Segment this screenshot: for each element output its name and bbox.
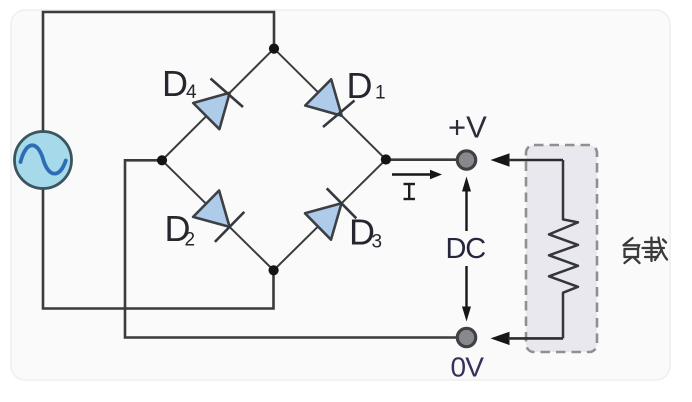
arrow into +V from load — [491, 153, 564, 166]
svg-text:1: 1 — [375, 83, 386, 104]
wire: AC bottom to bottom node — [43, 187, 274, 309]
wire: left node to 0V terminal — [125, 160, 456, 337]
svg-text:D: D — [347, 65, 373, 106]
load box (dashed) — [526, 145, 597, 352]
node left — [157, 155, 167, 165]
terminal +V — [457, 151, 475, 169]
terminal 0V — [457, 328, 475, 346]
svg-text:3: 3 — [372, 232, 383, 253]
svg-text:D: D — [162, 63, 188, 104]
diode D1 (top node to right node) — [305, 79, 354, 127]
diode D2 (left node to bottom node) — [193, 191, 244, 242]
svg-text:0V: 0V — [451, 352, 485, 383]
wire: bridge diamond — [162, 49, 386, 271]
label 负载 (load) drawn strokes — [624, 238, 668, 264]
current arrow I — [392, 170, 442, 179]
node right — [381, 154, 391, 164]
wire: AC top to top node — [43, 12, 274, 133]
svg-text:DC: DC — [446, 233, 486, 265]
node top — [269, 44, 279, 54]
AC source V1 — [15, 132, 72, 189]
resistor R load — [549, 160, 578, 338]
负 — [624, 238, 633, 245]
svg-text:4: 4 — [186, 82, 197, 103]
diode D3 (bottom node to right node) — [305, 188, 356, 239]
label I — [404, 184, 416, 199]
DC double arrow — [462, 177, 471, 322]
arrow into 0V from load — [491, 332, 564, 345]
svg-text:2: 2 — [185, 230, 196, 251]
载 — [650, 238, 652, 248]
node bottom — [269, 265, 279, 275]
wire: right node to +V terminal — [386, 158, 456, 161]
svg-text:+V: +V — [448, 110, 487, 145]
diode D4 (left node to top node) — [193, 79, 243, 130]
